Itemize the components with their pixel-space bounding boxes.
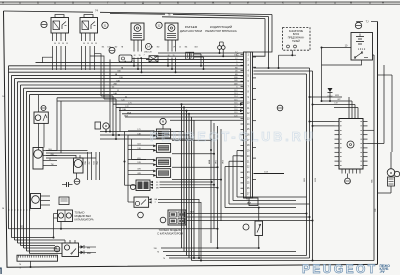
svg-text:Л: Л	[315, 0, 317, 4]
relay K2 top-left	[80, 15, 98, 46]
svg-text:М03: М03	[304, 178, 306, 182]
svg-text:15: 15	[179, 47, 181, 49]
svg-text:M0: M0	[157, 47, 160, 49]
svg-text:M08: M08	[124, 116, 128, 118]
sensor box B	[31, 194, 51, 209]
svg-text:КАТАЛИЗАТОРА: КАТАЛИЗАТОРА	[75, 218, 94, 221]
svg-text:ЗАЖИГАНИЕ: ЗАЖИГАНИЕ	[289, 30, 304, 33]
injector N1	[128, 129, 171, 138]
svg-text:M: M	[14, 209, 16, 211]
svg-text:A: A	[2, 0, 4, 4]
ignition coil T1	[131, 23, 144, 57]
svg-text:172: 172	[125, 106, 128, 108]
diagnostic connector symbol	[186, 52, 205, 70]
svg-text:ДИАГНОСТИКИ: ДИАГНОСТИКИ	[180, 29, 202, 33]
svg-text:Б: Б	[37, 0, 39, 4]
svg-text:9: 9	[137, 64, 138, 66]
wire 74 top bus	[4, 8, 273, 52]
screw terminal circle near relay K1	[41, 21, 47, 27]
svg-text:171: 171	[128, 103, 131, 105]
small box TX	[59, 197, 69, 205]
svg-text:15: 15	[66, 43, 68, 45]
svg-text:С КАТАЛИЗАТОРОМ: С КАТАЛИЗАТОРОМ	[157, 232, 184, 236]
motor circle above injectors	[160, 118, 166, 129]
svg-text:М19: М19	[315, 178, 317, 182]
wires from fuse box down	[278, 50, 297, 69]
svg-text:PEUGEOT-CLUB.RU: PEUGEOT-CLUB.RU	[150, 130, 316, 144]
svg-text:ПРЕДОХРАНИ-: ПРЕДОХРАНИ-	[288, 37, 305, 40]
PWM diode	[321, 88, 333, 102]
injector N4	[128, 169, 171, 178]
left wire bundle verticals	[9, 66, 30, 254]
ECU input bus wires	[9, 53, 244, 117]
node 16 / M labels left	[2, 96, 5, 210]
svg-text:7: 7	[143, 55, 144, 57]
left-mid horizontal links	[46, 151, 96, 159]
svg-text:ТЕЛЕЙ: ТЕЛЕЙ	[292, 40, 300, 43]
left bundle labels	[8, 209, 31, 211]
svg-text:БЛОК: БЛОК	[293, 34, 300, 36]
bottom relay K4	[62, 240, 79, 257]
IC feed wires	[309, 95, 359, 118]
ignition switch ref circle	[355, 22, 361, 28]
svg-text:Ж: Ж	[212, 0, 215, 4]
wires below relays	[43, 37, 117, 100]
screw circle above relay K3	[41, 106, 46, 111]
injector N2	[128, 144, 171, 153]
ignition coil T2	[165, 23, 178, 57]
svg-text:TW: TW	[97, 161, 99, 164]
wire 76 top bus	[110, 12, 270, 69]
catalyst O2 connector	[168, 210, 186, 225]
switch output wires right	[322, 48, 375, 261]
screw circle below sensor C	[74, 179, 80, 185]
screw circle below IC	[345, 174, 351, 184]
capacitor C1	[62, 182, 73, 187]
fuel pump M2	[378, 152, 395, 193]
svg-text:15: 15	[95, 43, 97, 45]
fuse box (dashed)	[283, 28, 311, 51]
arrows into ECU	[240, 103, 244, 112]
svg-text:И: И	[247, 0, 249, 4]
lambda box (no catalyst)	[53, 210, 73, 239]
ECU lower-left staircase wires	[225, 151, 310, 208]
micro box	[119, 55, 149, 62]
coding resistor symbol	[218, 42, 226, 57]
sensor box C	[74, 155, 84, 179]
thick wire 103 below ECU	[254, 171, 285, 173]
svg-text:1B0: 1B0	[117, 71, 120, 73]
relay K1 top-left	[51, 15, 69, 46]
connector box E (relay)	[134, 197, 202, 262]
no-catalyst caption	[75, 212, 94, 222]
svg-text:M2: M2	[115, 47, 118, 49]
sensor box A	[33, 148, 57, 170]
diagnostic connector label	[180, 25, 202, 33]
svg-text:2M0: 2M0	[144, 52, 148, 54]
svg-text:1 0 1 2: 1 0 1 2	[358, 48, 366, 51]
wire 7J bracket	[357, 20, 378, 24]
bottom bus wires	[154, 247, 374, 262]
ref circle D	[130, 184, 135, 189]
svg-text:Д: Д	[142, 0, 144, 4]
ref circle coil 2	[156, 22, 162, 28]
svg-text:19: 19	[133, 61, 135, 63]
ECU pin numbers	[247, 54, 250, 195]
diodes BM	[79, 245, 97, 255]
svg-text:Е: Е	[177, 0, 179, 4]
svg-text:M1: M1	[102, 47, 105, 49]
wire name labels mid-span	[112, 52, 148, 118]
box A wire labels	[48, 149, 54, 166]
right main bus wire	[377, 22, 379, 265]
svg-text:РЕЗИСТОР ВПРЫСКА: РЕЗИСТОР ВПРЫСКА	[205, 29, 237, 33]
svg-text:74: 74	[163, 258, 165, 260]
svg-text:NTR: NTR	[335, 95, 340, 97]
wire number labels near ECU	[234, 51, 238, 117]
connector box D	[136, 180, 219, 191]
svg-text:M: M	[2, 208, 4, 210]
mid distribution verticals	[57, 59, 146, 202]
relay K3 mid-left	[34, 95, 48, 150]
svg-text:171: 171	[137, 129, 140, 131]
wire 10 into switch	[321, 45, 352, 49]
svg-text:11: 11	[117, 90, 119, 92]
svg-text:TW: TW	[51, 164, 54, 166]
bottom O2 sensor	[255, 207, 263, 250]
crossed box	[149, 56, 158, 62]
screw circle below coil 1	[109, 47, 115, 53]
extra wire tag labels row	[102, 46, 199, 63]
small box below ECU	[249, 198, 258, 206]
ECU right pin stubs	[253, 57, 257, 180]
grid ruler top	[0, 0, 400, 4]
ref circle 14	[146, 44, 152, 50]
ECU bottom drop wires	[208, 120, 225, 248]
svg-text:Н: Н	[382, 0, 384, 4]
rotated wire labels mid-left	[85, 152, 100, 180]
watermark bottom	[302, 262, 390, 275]
ignition switch S1	[351, 33, 373, 61]
IC right links	[368, 65, 393, 152]
ref circle coil 1	[102, 22, 108, 28]
svg-text:120: 120	[121, 100, 124, 102]
svg-text:PEUGEOT: PEUGEOT	[302, 262, 377, 275]
svg-text:В: В	[72, 0, 74, 4]
svg-text:M4: M4	[185, 47, 188, 49]
IC module U1	[335, 119, 368, 174]
svg-text:15: 15	[58, 43, 60, 45]
tiny box far-left of motor	[95, 122, 101, 129]
catalyst wires right	[186, 212, 314, 222]
wires from coils to bus	[133, 40, 177, 73]
ref circle left of catalyst	[138, 212, 144, 218]
mid wire bundle to bottom	[100, 103, 244, 260]
bottom multipin connector	[17, 255, 58, 270]
screw circle right of ECU	[277, 105, 283, 111]
catalyst caption	[157, 228, 184, 236]
ref circle pump	[394, 171, 399, 176]
ref circle catalyst	[160, 217, 166, 223]
rotated labels right bus	[371, 179, 377, 212]
svg-text:ТОЛЬКО МОДЕЛИ: ТОЛЬКО МОДЕЛИ	[158, 228, 181, 232]
svg-text:.РУ: .РУ	[380, 270, 386, 274]
motor circle left	[103, 123, 120, 136]
svg-text:ВМ: ВМ	[87, 247, 90, 249]
ECU right side wires	[254, 68, 335, 261]
svg-text:15: 15	[87, 43, 89, 45]
svg-text:35: 35	[125, 96, 127, 98]
injector N3	[128, 158, 171, 167]
injector return wires right	[172, 139, 222, 180]
coding resistor label	[205, 25, 237, 33]
svg-text:МАВ: МАВ	[208, 159, 211, 164]
wire 75 top bus	[162, 17, 265, 56]
ECU connector C1	[241, 52, 253, 198]
ref circle bottom sensor	[243, 224, 249, 230]
svg-text:Л: Л	[0, 266, 2, 275]
screw circle bottom relay	[54, 246, 60, 252]
left bundle bottom turns	[9, 226, 218, 254]
